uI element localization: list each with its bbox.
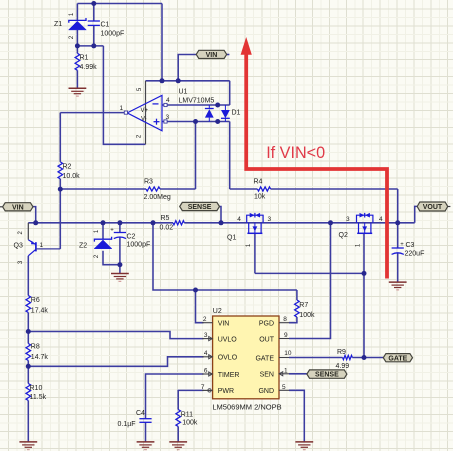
- wire R2 bottom through rail to Q3 base: [59, 179, 61, 249]
- wire output down to R2: [59, 113, 61, 162]
- wire C2 top lead: [119, 223, 121, 233]
- svg-text:R1: R1: [80, 55, 89, 62]
- wire OVLO divider tap: [28, 357, 203, 367]
- svg-text:3: 3: [268, 216, 272, 223]
- wire Z1 top lead: [76, 4, 78, 21]
- svg-text:+: +: [110, 228, 114, 234]
- svg-text:1: 1: [120, 105, 124, 112]
- svg-text:0.02: 0.02: [160, 225, 174, 232]
- ground under C2: [111, 273, 129, 275]
- svg-text:If VIN<0: If VIN<0: [266, 144, 325, 162]
- wire R7 bottom to PGD pin8: [289, 317, 297, 323]
- ground under R11: [169, 441, 187, 443]
- wire vertical from top rail to op-amp supply node: [161, 4, 163, 81]
- wire VIN port branch: [178, 55, 196, 81]
- svg-text:R11: R11: [181, 412, 193, 419]
- dual diode D1: [205, 105, 241, 122]
- wire rail branch down to U2 VIN row: [153, 223, 297, 290]
- svg-text:Q2: Q2: [339, 232, 348, 239]
- svg-text:100k: 100k: [299, 312, 315, 319]
- svg-text:14.7k: 14.7k: [31, 354, 49, 361]
- svg-text:SENSE: SENSE: [188, 204, 212, 211]
- svg-text:3: 3: [166, 114, 170, 121]
- wire R10 to ground: [27, 401, 29, 442]
- ground under R10: [19, 441, 37, 443]
- svg-text:R7: R7: [299, 302, 308, 309]
- wire C3 top lead: [397, 223, 399, 248]
- svg-text:C1: C1: [101, 22, 110, 29]
- wire SENSE port stub to rail: [220, 207, 222, 223]
- svg-text:SENSE: SENSE: [315, 372, 339, 379]
- svg-text:R10: R10: [30, 385, 43, 392]
- transistor Q3: [14, 223, 61, 264]
- svg-text:9: 9: [284, 332, 288, 339]
- svg-text:17.4k: 17.4k: [31, 308, 49, 315]
- svg-text:8: 8: [283, 316, 287, 323]
- svg-text:R3: R3: [144, 179, 153, 186]
- wire Z2 top lead: [102, 223, 104, 239]
- wire R9 to GATE port: [352, 357, 383, 359]
- svg-text:220uF: 220uF: [405, 251, 425, 258]
- svg-text:7: 7: [201, 384, 205, 391]
- port SENSE (rail): [180, 202, 220, 210]
- wire TIMER to C4: [146, 374, 204, 419]
- wire R11 bottom to ground: [177, 427, 179, 442]
- wire op-amp pin3 to D1 bottom: [162, 121, 230, 123]
- svg-text:4.99k: 4.99k: [80, 64, 98, 71]
- port VOUT: [417, 202, 448, 211]
- svg-text:GND: GND: [258, 388, 274, 395]
- zener Z2: [79, 229, 112, 258]
- resistor R1: [75, 53, 97, 71]
- svg-text:R9: R9: [337, 349, 346, 356]
- wire VIN port left nub: [0, 206, 2, 208]
- wire D1 branch to R4: [230, 188, 258, 190]
- wire top rail from Z1 to op-amp V+ branch: [77, 3, 162, 5]
- svg-text:C2: C2: [127, 234, 136, 241]
- resistor R3: [144, 179, 171, 202]
- wire supply rail down to D1 top: [229, 81, 231, 105]
- wire main rail R5 to Q1: [184, 222, 414, 224]
- wire Z1 bottom to node: [76, 30, 78, 53]
- svg-text:100k: 100k: [182, 420, 198, 427]
- svg-text:U2: U2: [213, 308, 222, 315]
- wire op-amp pin4 to D1 top: [162, 104, 230, 106]
- svg-text:10: 10: [284, 350, 292, 357]
- wire SEN pin1 to SENSE port: [289, 373, 307, 375]
- svg-text:R2: R2: [63, 164, 72, 171]
- svg-text:1000pF: 1000pF: [101, 31, 125, 38]
- red arrowhead: [241, 37, 252, 55]
- svg-text:Z1: Z1: [54, 21, 62, 28]
- svg-text:GATE: GATE: [388, 355, 407, 362]
- svg-text:R6: R6: [31, 297, 40, 304]
- svg-text:1: 1: [40, 242, 44, 249]
- svg-text:11.5k: 11.5k: [30, 394, 47, 401]
- wire R8 to R10: [27, 361, 29, 384]
- svg-text:U1: U1: [179, 89, 188, 96]
- svg-text:OVLO: OVLO: [218, 355, 238, 362]
- wire node A horizontal Z1/C1 bottom: [77, 45, 103, 47]
- ground under R1: [69, 87, 87, 89]
- wire R4 to VOUT node: [271, 188, 398, 190]
- svg-text:6: 6: [204, 367, 208, 374]
- svg-text:4: 4: [166, 97, 170, 104]
- svg-text:R4: R4: [254, 179, 263, 186]
- wire D1 bottom right down to R4 net: [229, 122, 231, 190]
- svg-text:R5: R5: [161, 215, 170, 222]
- capacitor C1: [88, 21, 125, 38]
- svg-text:3: 3: [204, 332, 208, 339]
- wire C1 top lead: [93, 4, 95, 22]
- wire Q1 gate down: [254, 233, 256, 273]
- wire D1 bottom left down to R3 net: [195, 122, 197, 190]
- wire R7 top lead: [296, 290, 298, 300]
- svg-text:PGD: PGD: [259, 321, 274, 328]
- svg-text:V+: V+: [141, 108, 149, 114]
- svg-text:VIN: VIN: [12, 204, 24, 211]
- wire Q3 collector chain: [27, 256, 29, 296]
- ground under C4: [137, 441, 155, 443]
- svg-text:SEN: SEN: [260, 372, 274, 379]
- wire op-amp pin5/pin2 vertical through symbol: [145, 81, 147, 145]
- svg-text:TIMER: TIMER: [218, 372, 240, 379]
- svg-text:VIN: VIN: [218, 321, 230, 328]
- wire R6 to R8: [27, 313, 29, 344]
- capacitor C2: [110, 228, 150, 249]
- wire gate bus horizontal: [255, 272, 364, 274]
- IC U2 LM5069: [201, 308, 292, 411]
- wire Z2 bottom to ground node: [103, 251, 120, 265]
- capacitor C3: [392, 242, 425, 258]
- mosfet Q2: [339, 213, 384, 247]
- mosfet Q1: [227, 213, 272, 247]
- svg-text:+: +: [400, 242, 404, 248]
- wire PWR pin7 to R11: [178, 390, 203, 409]
- svg-text:10k: 10k: [254, 194, 266, 201]
- svg-text:0.1µF: 0.1µF: [118, 421, 136, 428]
- resistor R5: [160, 215, 185, 232]
- svg-text:4: 4: [204, 350, 208, 357]
- wire C4 bottom to ground: [145, 422, 147, 442]
- svg-text:2: 2: [203, 316, 207, 323]
- wire VIN port stub: [33, 207, 36, 223]
- wire Q2 gate down to R9 node: [363, 233, 365, 357]
- svg-text:Z2: Z2: [79, 243, 87, 250]
- resistor R6: [26, 296, 48, 315]
- wire R4 net down to output rail: [397, 189, 399, 223]
- wire op-amp supply rail horizontal: [146, 80, 230, 82]
- svg-text:D1: D1: [232, 110, 241, 117]
- resistor R8: [26, 344, 48, 362]
- svg-text:V-: V-: [141, 116, 147, 122]
- resistor R2: [58, 162, 80, 180]
- resistor R11: [176, 410, 198, 427]
- svg-text:1: 1: [284, 367, 288, 374]
- wire R2 node to R3: [60, 188, 146, 190]
- svg-text:OUT: OUT: [259, 336, 275, 343]
- wire UVLO divider tap: [28, 332, 203, 339]
- resistor R9: [336, 349, 353, 370]
- resistor R10: [26, 384, 47, 401]
- zener Z1: [54, 12, 86, 39]
- port SENSE (to SEN pin): [307, 370, 347, 378]
- wire VOUT port connection: [415, 206, 418, 222]
- svg-text:10.0k: 10.0k: [63, 173, 81, 180]
- wire node A down to op-amp pin2 loop: [103, 46, 145, 144]
- svg-text:5: 5: [282, 384, 286, 391]
- wire VIN port right nub: [227, 54, 230, 56]
- svg-text:Q3: Q3: [14, 242, 23, 249]
- svg-text:UVLO: UVLO: [218, 337, 238, 344]
- wire R1 bottom to ground: [76, 70, 78, 88]
- wire C2 bottom to ground: [119, 237, 121, 273]
- wire main VIN rail left: [28, 222, 173, 224]
- capacitor C4: [118, 410, 152, 428]
- svg-text:PWR: PWR: [218, 388, 234, 395]
- svg-text:VIN: VIN: [206, 52, 218, 59]
- wire C1 bottom lead: [93, 25, 95, 46]
- ground under C3: [389, 281, 407, 283]
- wire C3 bottom to ground: [397, 253, 399, 282]
- svg-text:4: 4: [379, 216, 383, 223]
- wire GATE pin10 through R9 to GATE port: [289, 357, 343, 359]
- wire VOUT port right nub: [448, 206, 451, 208]
- svg-text:VOUT: VOUT: [423, 204, 443, 211]
- red annotation path if VIN negative: [246, 54, 387, 279]
- svg-text:C4: C4: [136, 410, 145, 417]
- svg-text:4: 4: [237, 216, 241, 223]
- svg-text:Q1: Q1: [227, 235, 236, 242]
- wire down to U2 pin2 VIN: [196, 290, 204, 323]
- svg-text:GATE: GATE: [255, 355, 274, 362]
- wire OUT pin9 up to rail: [289, 223, 331, 339]
- wire R3 to D1 branch: [160, 188, 196, 190]
- ground under U2 GND pin: [295, 441, 313, 443]
- svg-text:R8: R8: [31, 344, 40, 351]
- resistor R4: [254, 179, 271, 201]
- svg-text:C3: C3: [406, 242, 415, 249]
- svg-text:1000pF: 1000pF: [127, 242, 151, 249]
- svg-text:4.99: 4.99: [336, 363, 350, 370]
- svg-text:2.00Meg: 2.00Meg: [144, 194, 171, 201]
- svg-text:LMV710M5: LMV710M5: [179, 98, 215, 105]
- port GATE: [383, 354, 412, 362]
- svg-text:3: 3: [346, 216, 350, 223]
- wire GND pin5 to ground: [289, 390, 304, 442]
- svg-text:LM5069MM 2/NOPB: LM5069MM 2/NOPB: [212, 402, 281, 411]
- resistor R7: [295, 300, 315, 319]
- wire op-amp output pin1: [60, 112, 127, 114]
- port VIN (top, to op-amp): [196, 50, 227, 58]
- port VIN (left input): [3, 203, 33, 211]
- op-amp U1 LMV710M5: [120, 87, 215, 138]
